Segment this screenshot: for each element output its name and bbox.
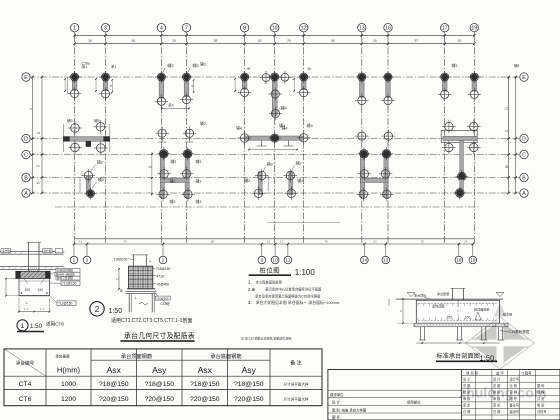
svg-text:150: 150: [38, 288, 44, 292]
svg-text:承台编号: 承台编号: [16, 360, 35, 367]
svg-text:辅3: 辅3: [170, 159, 176, 164]
svg-text:1:1: 1:1: [24, 307, 28, 311]
svg-text:11: 11: [79, 239, 82, 243]
svg-text:D: D: [24, 136, 28, 142]
svg-text:?20@150: ?20@150: [234, 396, 264, 403]
svg-text:项 目 号: 项 目 号: [466, 370, 479, 375]
svg-text:工程号: 工程号: [522, 370, 533, 375]
svg-text:承台底筋: 承台底筋: [432, 303, 445, 308]
svg-text:1:1: 1:1: [40, 307, 44, 311]
svg-text:图 例: 图 例: [537, 383, 544, 388]
svg-text:适用CT1.CT2.CT3.CT5.CT7.1-1剖面: 适用CT1.CT2.CT3.CT5.CT7.1-1剖面: [111, 317, 192, 324]
svg-text:B: B: [24, 175, 28, 181]
svg-text:辅3: 辅3: [200, 61, 206, 66]
svg-text:承台筋: 承台筋: [2, 249, 10, 253]
svg-text:150: 150: [447, 316, 453, 320]
svg-text:共 张: 共 张: [537, 396, 545, 401]
svg-text:58: 58: [331, 39, 335, 43]
svg-text:辅3: 辅3: [196, 199, 202, 204]
svg-text:19: 19: [470, 258, 476, 264]
svg-text:E: E: [522, 75, 526, 81]
svg-text:36: 36: [36, 181, 40, 185]
svg-text:B: B: [522, 175, 526, 181]
svg-text:C: C: [24, 152, 28, 158]
svg-text:辅3: 辅3: [170, 179, 176, 184]
svg-text:总 图: 总 图: [463, 383, 470, 388]
svg-text:校 对: 校 对: [493, 390, 501, 395]
svg-text:设 计: 设 计: [493, 377, 501, 382]
svg-text:2: 2: [86, 258, 89, 264]
svg-text:36: 36: [37, 131, 41, 135]
svg-text:?20@150: ?20@150: [190, 396, 220, 403]
svg-text:10: 10: [272, 26, 278, 32]
svg-text:监 字: 监 字: [496, 370, 504, 375]
svg-text:承台及承台梁混凝土强度等级为C35防水等级: 承台及承台梁混凝土强度等级为C35防水等级: [255, 294, 321, 299]
svg-text:16: 16: [385, 26, 391, 32]
svg-text:1: 1: [21, 323, 25, 330]
svg-text:17: 17: [442, 26, 448, 32]
svg-text:D: D: [522, 136, 526, 142]
svg-text:4T10: 4T10: [156, 274, 164, 278]
svg-text:56: 56: [132, 39, 136, 43]
svg-text:150: 150: [25, 288, 31, 292]
svg-text:注 施工时,钢筋比较规格,钢筋绑扎规格: 注 施工时,钢筋比较规格,钢筋绑扎规格: [241, 336, 292, 341]
svg-text:C3: C3: [504, 107, 508, 111]
svg-text:76: 76: [324, 239, 328, 243]
svg-text:设 工: 设 工: [463, 377, 471, 382]
svg-text:3.: 3.: [248, 300, 252, 305]
svg-text:21: 21: [373, 239, 377, 243]
svg-text:CT4: CT4: [19, 381, 32, 388]
svg-text:2: 2: [162, 258, 165, 264]
svg-text:辅4: 辅4: [281, 105, 288, 111]
svg-text:?16@600: ?16@600: [156, 296, 169, 300]
svg-text:适用CT8: 适用CT8: [46, 321, 64, 328]
svg-text:建设号: 建设号: [510, 409, 520, 414]
svg-text:16: 16: [505, 129, 509, 133]
svg-text:辅2: 辅2: [297, 177, 304, 183]
svg-text:98: 98: [211, 239, 215, 243]
svg-text:1:50: 1:50: [109, 308, 123, 315]
svg-text:归档号: 归档号: [537, 409, 547, 414]
svg-text:桩顶锚固筋: 桩顶锚固筋: [474, 307, 489, 312]
svg-text:1:50: 1:50: [30, 323, 43, 330]
svg-text:?18@150: ?18@150: [144, 381, 174, 388]
svg-text:辅3: 辅3: [514, 63, 519, 68]
svg-text:总 图: 总 图: [493, 383, 500, 388]
svg-text:30: 30: [458, 39, 462, 43]
svg-text:12: 12: [280, 239, 284, 243]
svg-text:辅2: 辅2: [267, 161, 274, 167]
svg-text:承台顶面钢筋: 承台顶面钢筋: [121, 352, 152, 360]
svg-text:26: 26: [373, 39, 377, 43]
svg-text:辅2: 辅2: [296, 160, 303, 166]
svg-text:备 注: 备 注: [290, 360, 301, 367]
svg-text:36: 36: [110, 84, 113, 88]
svg-text:本工程桩基础采用: 本工程桩基础采用: [256, 279, 282, 284]
svg-text:14: 14: [362, 258, 368, 264]
svg-text:桩柱引筋钢筋: 桩柱引筋钢筋: [57, 276, 73, 280]
svg-text:30: 30: [258, 39, 262, 43]
svg-text:辅4: 辅4: [236, 126, 242, 131]
svg-text:第 张: 第 张: [537, 403, 545, 408]
svg-text:⊕: ⊕: [120, 288, 123, 293]
svg-text:使用部位:: 使用部位:: [407, 400, 422, 405]
svg-text:辅2: 辅2: [67, 118, 73, 123]
svg-text:36: 36: [191, 84, 194, 88]
svg-text:承4: 承4: [168, 103, 174, 108]
svg-text:36: 36: [505, 165, 509, 169]
svg-text:承台大样图见本图 承台面标一 承台面标+100mm.: 承台大样图见本图 承台面标一 承台面标+100mm.: [256, 300, 341, 305]
svg-text:Asx: Asx: [107, 365, 122, 375]
svg-text:结构加固钢筋: 结构加固钢筋: [57, 268, 73, 272]
svg-text:14: 14: [464, 239, 468, 243]
svg-text:承1: 承1: [111, 64, 117, 69]
svg-text:24: 24: [36, 164, 40, 168]
svg-text:承台高度: 承台高度: [55, 354, 70, 359]
svg-text:桩位图: 桩位图: [260, 266, 281, 275]
svg-text:辅2: 辅2: [97, 159, 104, 165]
svg-text:审 定: 审 定: [493, 403, 501, 408]
svg-text:辅3: 辅3: [196, 159, 202, 164]
svg-text:C: C: [522, 152, 526, 158]
svg-text:1: 1: [73, 258, 76, 264]
svg-text:150: 150: [465, 316, 471, 320]
svg-text:9: 9: [260, 258, 263, 264]
svg-text:zhulong.com: zhulong.com: [459, 386, 546, 402]
svg-text:29: 29: [287, 39, 291, 43]
svg-text:Asy: Asy: [242, 365, 257, 375]
svg-text:1200: 1200: [61, 396, 76, 403]
svg-text:1:100: 1:100: [295, 268, 316, 277]
svg-text:表示承台中心位置承台编号详见平面图: 表示承台中心位置承台编号详见平面图: [265, 287, 322, 292]
svg-text:718@150: 718@150: [114, 258, 128, 262]
svg-text:辅4: 辅4: [307, 122, 314, 128]
svg-text:图 别: 结施 承台大样图: 图 别: 结施 承台大样图: [332, 407, 367, 412]
svg-text:1: 1: [73, 26, 76, 32]
svg-text:建设单位:: 建设单位:: [330, 392, 345, 397]
svg-text:58: 58: [214, 39, 218, 43]
svg-text:15: 15: [383, 258, 389, 264]
svg-text:18: 18: [456, 258, 462, 264]
svg-text:?18@150: ?18@150: [190, 381, 220, 388]
svg-text:3: 3: [104, 26, 107, 32]
svg-text:1.: 1.: [248, 280, 252, 285]
svg-text:10: 10: [272, 258, 278, 264]
svg-text:尺寸详平面大样: 尺寸详平面大样: [283, 381, 309, 386]
svg-text:7: 7: [185, 26, 188, 32]
svg-text:?20@150: ?20@150: [99, 396, 129, 403]
svg-text:规 格: 规 格: [537, 390, 545, 395]
svg-text:承台筋: 承台筋: [44, 249, 52, 253]
svg-text:C15砼: C15砼: [161, 301, 171, 306]
svg-text:E: E: [24, 75, 28, 81]
svg-text:19: 19: [471, 26, 477, 32]
svg-text:备注号: 备注号: [510, 403, 520, 408]
svg-text:?12@150: ?12@150: [58, 302, 73, 306]
svg-text:CT8a: CT8a: [82, 61, 90, 65]
svg-text:4: 4: [160, 26, 163, 32]
svg-text:辅3: 辅3: [193, 62, 200, 68]
svg-text:校 对: 校 对: [463, 390, 471, 395]
svg-text:2: 2: [95, 305, 100, 314]
svg-text:审 核: 审 核: [463, 396, 471, 401]
svg-text:辅2: 辅2: [98, 176, 105, 182]
svg-text:?18@150: ?18@150: [99, 381, 129, 388]
svg-text:承台配筋: 承台配筋: [437, 291, 449, 296]
svg-text:辅2: 辅2: [200, 121, 206, 126]
svg-text:辅4: 辅4: [282, 126, 288, 131]
svg-text:Asx: Asx: [198, 365, 213, 375]
svg-text:?20@150: ?20@150: [144, 396, 174, 403]
svg-text:承台几何尺寸及配筋表: 承台几何尺寸及配筋表: [124, 331, 195, 340]
svg-text:比 例: 比 例: [510, 383, 517, 388]
svg-text:12: 12: [116, 277, 120, 281]
svg-text:76: 76: [123, 239, 127, 243]
svg-text:57: 57: [414, 39, 418, 43]
svg-text:H(mm): H(mm): [57, 366, 81, 375]
svg-text:?6@400: ?6@400: [157, 282, 170, 286]
svg-text:辅2: 辅2: [244, 177, 251, 183]
svg-text:日 期: 日 期: [463, 409, 470, 414]
svg-text:11: 11: [285, 258, 290, 264]
svg-text:辅3: 辅3: [167, 62, 174, 68]
svg-text:Asy: Asy: [152, 365, 167, 375]
svg-text:辅2: 辅2: [94, 118, 100, 123]
svg-text:设 计:: 设 计:: [332, 400, 341, 405]
svg-text:审 核: 审 核: [493, 396, 501, 401]
svg-text:尺寸详平面大样: 尺寸详平面大样: [283, 397, 309, 402]
svg-text:12: 12: [301, 26, 307, 32]
svg-text:桩M4R.4纵横筋: 桩M4R.4纵横筋: [56, 272, 75, 276]
svg-text:H: H: [400, 309, 402, 313]
svg-text:A: A: [522, 191, 526, 197]
svg-text:设计号: 设计号: [510, 377, 520, 382]
svg-text:辅3: 辅3: [170, 199, 176, 204]
svg-text:?12@150: ?12@150: [62, 282, 77, 286]
svg-text:718@150: 718@150: [156, 267, 171, 271]
svg-text:1000: 1000: [61, 381, 76, 388]
svg-text:?18@150: ?18@150: [234, 381, 264, 388]
svg-text:25: 25: [172, 39, 176, 43]
svg-text:辅3: 辅3: [196, 179, 202, 184]
svg-text:2.⊕: 2.⊕: [248, 287, 255, 292]
svg-text:13: 13: [267, 239, 271, 243]
svg-text:日 期: 日 期: [493, 409, 500, 414]
svg-text:A: A: [24, 191, 28, 197]
svg-text:CT6: CT6: [19, 396, 32, 403]
svg-text:图 号:: 图 号:: [332, 415, 341, 420]
svg-text:审 定: 审 定: [463, 403, 471, 408]
svg-text:辅3: 辅3: [452, 63, 458, 68]
svg-text:72: 72: [421, 239, 425, 243]
svg-text:标准承台剖面图: 标准承台剖面图: [437, 352, 480, 360]
svg-text:承台底面钢筋: 承台底面钢筋: [210, 352, 241, 360]
svg-text:8: 8: [243, 26, 246, 32]
svg-text:36: 36: [148, 165, 152, 169]
svg-text:45: 45: [29, 107, 33, 111]
svg-text:图 号: 图 号: [510, 396, 517, 401]
svg-text:承台顶标: 承台顶标: [414, 292, 426, 297]
svg-text:13: 13: [359, 26, 365, 32]
svg-text:30: 30: [88, 39, 92, 43]
svg-text:日 期: 日 期: [510, 390, 517, 395]
